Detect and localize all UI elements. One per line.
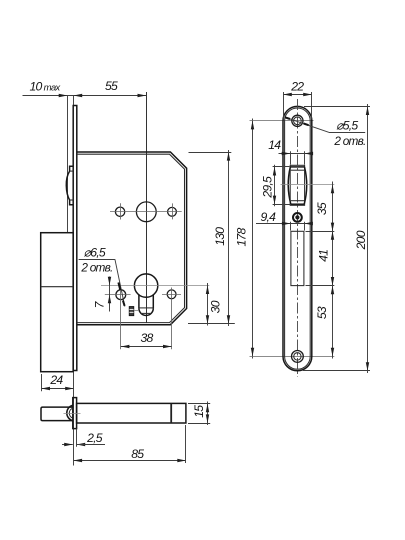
leader 5.5 arrow b	[304, 124, 309, 126]
svg-text:178: 178	[235, 227, 249, 246]
svg-text:130: 130	[213, 227, 227, 246]
latch chamfer bottom	[291, 200, 304, 202]
svg-text:2,5: 2,5	[86, 431, 103, 445]
bolt tail mark	[170, 404, 172, 423]
arrow 35 bottom	[331, 223, 334, 232]
dim 24 line	[41, 388, 73, 390]
faceplate strip side view	[73, 106, 77, 371]
dim 30 line	[207, 283, 209, 326]
lock body outer outline	[77, 152, 187, 325]
top screw hole inner	[294, 117, 302, 125]
arrow 178 bottom	[251, 348, 254, 357]
ext 200 bottom	[303, 370, 370, 372]
arrow 85 right	[177, 459, 186, 462]
top screw hole outer	[292, 115, 303, 126]
arrow 29.5 bottom	[273, 196, 276, 205]
arrow 7 top	[108, 277, 111, 286]
svg-text:22: 22	[290, 80, 304, 94]
arrow 38 left	[121, 345, 130, 348]
svg-text:15: 15	[192, 405, 206, 418]
ext 29.5 bottom	[273, 204, 290, 206]
hole left small top row	[115, 207, 124, 216]
bolt flange front	[73, 398, 77, 429]
arrow 22 right	[303, 93, 312, 96]
faceplate inner outline	[285, 108, 311, 369]
dim 85 line	[74, 460, 186, 462]
ext 41 top	[306, 231, 335, 233]
cylinder line2	[140, 312, 152, 314]
ext screw top line	[250, 120, 314, 122]
dim 9.4 line	[256, 223, 312, 225]
label underline 5.5	[329, 132, 366, 134]
arrow 178 top	[251, 121, 254, 130]
ext 22 right	[311, 92, 313, 120]
ext v hole65 right down	[171, 288, 173, 350]
dim 2.5 line left	[62, 444, 73, 446]
leader arrow a	[118, 283, 120, 291]
dim 38 line	[121, 346, 172, 348]
chain dim line right	[332, 182, 334, 359]
dim 29.5 line	[274, 165, 276, 207]
latch barrel left	[288, 167, 291, 204]
arrow 15 bottom	[206, 414, 209, 423]
ext 41 bottom	[306, 285, 335, 287]
dimension line 10max/55	[23, 95, 147, 97]
arrow 85 left	[74, 459, 83, 462]
dim 22 line	[283, 94, 312, 96]
ext 14 left	[290, 151, 292, 164]
center tick h hole65 right	[162, 294, 181, 296]
screw leader line	[134, 310, 139, 312]
latch bolt side view	[66, 166, 73, 204]
label underline 6.5	[79, 259, 115, 261]
leader 5.5	[285, 117, 329, 132]
svg-text:2 отв.: 2 отв.	[333, 134, 365, 148]
ext 85 right	[185, 425, 187, 463]
arrow 14 right	[305, 152, 314, 155]
center tick h hole65 left	[105, 294, 131, 296]
arrow 10max left	[59, 94, 68, 97]
cylinder circle	[134, 274, 157, 297]
lock body inner outline	[77, 154, 185, 322]
long window	[291, 231, 304, 285]
ext 9.4 left	[290, 222, 292, 231]
ext 200 top	[304, 106, 370, 108]
leader arrow b	[123, 301, 125, 306]
arrow 2.5 right	[77, 443, 86, 446]
ext 24 left	[41, 374, 43, 391]
ext screw bottom line	[250, 356, 335, 358]
ext v hole65 left down	[120, 287, 122, 349]
center line top holes row	[110, 211, 182, 213]
ext 9.4 right	[304, 222, 306, 231]
latch centerline	[281, 184, 335, 186]
arrow 38 right	[163, 345, 172, 348]
ext 29.5 top	[273, 166, 290, 168]
leader 5.5 arrow a	[285, 117, 290, 119]
svg-text:38: 38	[140, 331, 153, 345]
arrow 200 top	[366, 106, 369, 115]
cylinder stem right	[152, 295, 154, 309]
faceplate outer outline	[283, 106, 312, 370]
latch barrel right	[304, 167, 307, 204]
arrow 9.4 left	[282, 222, 291, 225]
bolt head	[41, 407, 73, 421]
latch bottom edge	[291, 203, 304, 205]
arrow 15 top	[206, 404, 209, 413]
hole 6.5 left	[116, 290, 126, 300]
deadbolt divider	[41, 286, 73, 288]
arrow 29.5 top	[273, 167, 276, 176]
svg-text:41: 41	[316, 250, 330, 262]
deadbolt box side view	[41, 233, 73, 372]
arrow 30 top	[206, 285, 209, 294]
center tick v right hole	[172, 203, 174, 219]
center axis left view	[146, 92, 148, 323]
center tick v left hole	[120, 203, 122, 219]
arrow 2.5 left	[64, 443, 73, 446]
svg-text:⌀6,5: ⌀6,5	[84, 246, 106, 260]
svg-text:53: 53	[315, 306, 329, 319]
ext long x73	[73, 373, 75, 466]
latch chamfer top	[291, 169, 304, 171]
ext 14 right	[304, 151, 306, 164]
arrow 10max/55 shared	[74, 94, 83, 97]
protrusion line 10max	[67, 95, 69, 233]
ext body bottom	[188, 323, 235, 325]
leader 6.5	[115, 259, 125, 306]
bolt centerline	[64, 413, 81, 415]
svg-text:10max: 10max	[30, 80, 62, 94]
svg-text:30: 30	[208, 300, 222, 313]
svg-text:24: 24	[49, 373, 63, 387]
arrow 22 left	[283, 93, 292, 96]
ext 2.5 right	[76, 429, 78, 447]
arrow 130 bottom	[227, 315, 230, 324]
dim 2.5 tail	[77, 444, 105, 446]
latch window	[290, 165, 304, 205]
extension faceplate	[73, 95, 75, 106]
arrow 41 bottom	[331, 277, 334, 286]
dim 178 line	[252, 119, 254, 359]
svg-text:⌀5,5: ⌀5,5	[336, 119, 358, 133]
arrow 9.4 right	[304, 222, 313, 225]
ext 15 bottom	[188, 423, 210, 425]
dim 14 line	[279, 153, 313, 155]
bolt tail	[77, 403, 186, 423]
set screw	[129, 307, 134, 316]
arrow 35 top	[331, 185, 334, 194]
svg-text:2 отв.: 2 отв.	[80, 261, 112, 275]
middle screw	[293, 213, 302, 222]
cylinder line1	[139, 307, 153, 309]
latch top edge	[290, 166, 304, 168]
arrow 200 bottom	[366, 362, 369, 371]
arrow 24 right	[65, 387, 74, 390]
ext 15 top	[188, 403, 210, 405]
arrow 53 bottom	[331, 348, 334, 357]
svg-text:9,4: 9,4	[260, 210, 276, 224]
arrow 41 top	[331, 231, 334, 240]
hole right small top row	[168, 207, 177, 216]
bolt head arc outer	[67, 405, 73, 421]
arrow 55 right	[138, 94, 147, 97]
center h line cylinder row	[101, 285, 209, 287]
bottom screw hole outer	[292, 351, 304, 363]
svg-text:200: 200	[354, 230, 368, 250]
cylinder bottom arc	[139, 308, 153, 315]
arrow 53 top	[331, 286, 334, 295]
ext body top	[189, 152, 232, 154]
bolt head arc inner	[69, 408, 73, 418]
arrow 14 left	[282, 152, 291, 155]
svg-text:85: 85	[131, 447, 144, 461]
dim 7 line	[109, 277, 111, 312]
ext 22 left	[283, 92, 285, 120]
arrow 7 bottom	[108, 295, 111, 304]
dim 130 line	[228, 150, 230, 326]
svg-text:35: 35	[315, 202, 329, 215]
svg-text:14: 14	[268, 138, 281, 152]
dim 15 line	[207, 402, 209, 426]
plate centerline	[297, 99, 299, 377]
svg-text:29,5: 29,5	[261, 176, 275, 199]
arrow 130 top	[227, 152, 230, 161]
cylinder stem left	[138, 295, 140, 309]
arrow 30 bottom	[206, 315, 209, 324]
dim 200 line	[367, 104, 369, 373]
svg-text:55: 55	[105, 79, 118, 93]
bottom screw hole inner	[294, 353, 301, 360]
hole center large top row	[136, 202, 156, 222]
hole 6.5 right	[167, 290, 176, 299]
arrow 24 left	[41, 387, 50, 390]
